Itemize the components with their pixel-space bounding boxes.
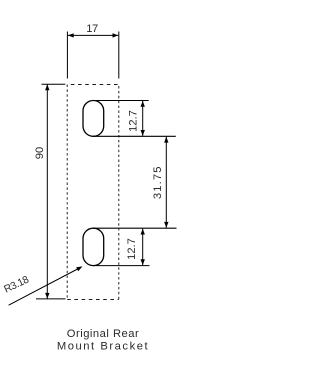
- dimension 12.7 bottom: dimension line: [142, 229, 144, 266]
- dimension 17: left arrowhead: [68, 33, 74, 37]
- slot 2 top tangent / extension line: [93, 227, 177, 229]
- dimension 12.7 top: upper arrowhead: [141, 101, 145, 107]
- dimension 12.7 bottom: lower arrowhead: [141, 259, 145, 265]
- dimension 31.75: dimension line: [165, 137, 167, 228]
- slot 2 (bottom obround): [83, 228, 104, 265]
- svg-text:90: 90: [34, 147, 46, 159]
- slot 1 bottom tangent / extension line: [93, 135, 176, 137]
- radius leader line R3.18: [9, 268, 80, 305]
- bracket outline right edge (dashed): [118, 85, 120, 300]
- dimension 90: top arrowhead: [45, 84, 49, 90]
- dimension 17: right extension line: [118, 32, 120, 79]
- dimension 12.7 top: dimension line: [142, 101, 144, 136]
- svg-text:Mount Bracket: Mount Bracket: [57, 340, 149, 352]
- bracket outline top edge (dashed): [67, 84, 119, 86]
- svg-text:31.75: 31.75: [152, 165, 164, 199]
- dimension 17: right arrowhead: [113, 33, 119, 37]
- dimension 31.75: upper arrowhead: [164, 137, 168, 143]
- dimension 31.75: lower arrowhead: [164, 222, 168, 228]
- dimension 90: dimension line: [46, 85, 48, 299]
- dimension 17: left extension line: [66, 32, 68, 79]
- dimension 17: dimension line: [68, 34, 118, 36]
- dimension 90: bottom extension line: [36, 298, 66, 300]
- svg-text:17: 17: [86, 23, 98, 35]
- dimension 90: top extension line: [42, 83, 66, 85]
- slot 1 top tangent / extension line: [93, 100, 149, 102]
- bracket outline bottom edge (dashed): [67, 299, 119, 301]
- dimension 12.7 bottom: upper arrowhead: [141, 229, 145, 235]
- radius leader arrowhead: [76, 266, 82, 271]
- dimension 12.7 top: lower arrowhead: [141, 130, 145, 136]
- slot 1 (top obround): [83, 101, 104, 137]
- svg-text:Original Rear: Original Rear: [67, 328, 139, 340]
- svg-text:12.7: 12.7: [127, 110, 139, 132]
- bracket outline left edge (dashed): [66, 85, 68, 300]
- slot 2 bottom tangent / extension line: [93, 265, 150, 267]
- dimension 90: bottom arrowhead: [45, 293, 49, 299]
- svg-text:12.7: 12.7: [126, 238, 138, 260]
